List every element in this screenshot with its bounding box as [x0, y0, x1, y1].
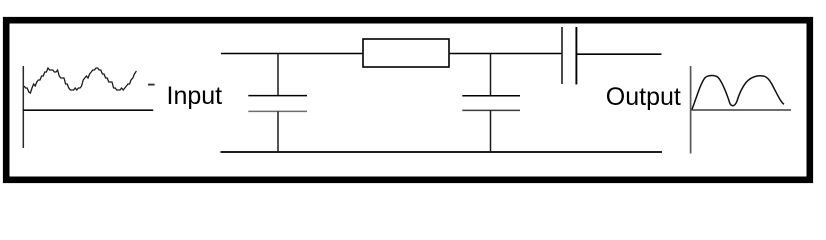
- border frame: [6, 20, 810, 180]
- capacitor C2 bottom plate: [462, 109, 520, 111]
- input marker dash: [148, 84, 155, 86]
- capacitor C1 bottom lead wire: [277, 111, 279, 152]
- capacitor C3 right plate: [575, 27, 577, 84]
- wire top middle segment: [449, 53, 563, 55]
- capacitor C1 bottom plate: [248, 110, 307, 112]
- wire top left segment: [221, 53, 363, 55]
- capacitor C1 top plate: [248, 95, 307, 97]
- capacitor C2 top plate: [462, 95, 520, 97]
- label Input: [167, 84, 223, 109]
- output graph vertical axis: [690, 66, 692, 154]
- wire top right segment: [577, 53, 662, 55]
- label Output: [606, 85, 681, 110]
- input noisy waveform: [24, 68, 136, 93]
- capacitor C2 top lead wire: [490, 54, 492, 96]
- capacitor C1 top lead wire: [277, 54, 279, 96]
- capacitor C2 bottom lead wire: [490, 110, 492, 152]
- wire bottom bus: [221, 151, 663, 153]
- input graph vertical axis: [22, 66, 24, 148]
- capacitor C3 left plate: [561, 27, 563, 84]
- input graph horizontal axis: [23, 109, 153, 111]
- output graph horizontal axis: [690, 109, 791, 111]
- output smooth waveform: [692, 76, 784, 110]
- resistor R1: [363, 39, 449, 67]
